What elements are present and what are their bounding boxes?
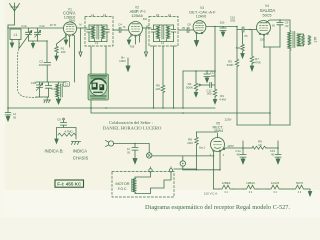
svg-text:12AV6: 12AV6 <box>196 15 207 19</box>
capacitor C11 <box>204 71 210 82</box>
svg-text:12AV6: 12AV6 <box>271 181 280 185</box>
IF1 internals <box>87 25 109 42</box>
tube V4 salida <box>257 21 271 36</box>
wire IF2 bottoms to buses <box>154 46 174 108</box>
B+ arrow near stamp <box>126 58 130 71</box>
variable capacitor C1C trimmer <box>35 28 41 41</box>
bus y125 <box>237 124 290 126</box>
svg-text:SALIDA: SALIDA <box>260 8 276 13</box>
svg-text:125V: 125V <box>224 118 231 122</box>
phono pickup <box>106 141 150 147</box>
svg-text:4,7MΩ: 4,7MΩ <box>64 130 72 134</box>
resistor under C10 <box>241 32 245 58</box>
capacitor IF2 left <box>151 25 155 42</box>
svg-text:470K: 470K <box>254 61 261 65</box>
coil L2 osc <box>56 82 62 99</box>
wire C8 to V3 grid <box>189 29 193 31</box>
svg-text:12K: 12K <box>155 87 160 91</box>
capacitor C10 coupling <box>242 27 244 32</box>
svg-text:L4: L4 <box>161 41 165 45</box>
svg-text:600: 600 <box>71 19 76 23</box>
wire cathode join x270 down <box>269 47 271 125</box>
legend network capacitor C6 <box>61 118 67 127</box>
motor coil <box>132 172 171 194</box>
wire IF1 to C4 <box>113 29 119 31</box>
resistor R3 <box>213 89 217 104</box>
ground arrow under V2 <box>127 36 131 45</box>
wire screen drop x146 <box>144 28 147 56</box>
legend chassis symbol <box>72 142 81 145</box>
svg-text:250: 250 <box>220 21 225 25</box>
svg-text:L1: L1 <box>14 33 18 37</box>
pilot lamp <box>180 156 220 170</box>
coil IF2 primary <box>157 25 160 42</box>
capacitor C15 electrolytic <box>275 141 281 164</box>
coil IF1 primary <box>92 25 95 42</box>
capacitor C16 phono <box>132 144 138 164</box>
wire V1 pin down to osc feedback <box>70 36 75 82</box>
IF transformer 2 dashed box <box>149 17 178 47</box>
bus y108 <box>8 107 215 109</box>
svg-text:F.O.C.: F.O.C. <box>118 187 128 191</box>
svg-text:40: 40 <box>271 153 275 157</box>
filter: resistor R9 <box>243 146 278 149</box>
wire V5 plate feed <box>197 131 218 133</box>
svg-text:05: 05 <box>13 116 17 120</box>
wire C10 to V4 grid <box>244 29 257 31</box>
svg-text:R18: R18 <box>130 46 135 49</box>
svg-text:3 4: 3 4 <box>273 191 277 194</box>
note colaboracion <box>103 120 162 131</box>
capacitor C7 to ground <box>220 27 226 37</box>
svg-text:.02: .02 <box>285 24 289 28</box>
svg-text:L3: L3 <box>95 41 99 45</box>
wire AC line from box to filaments <box>174 168 197 170</box>
svg-text:600: 600 <box>143 18 148 21</box>
capacitor C8 coupling <box>187 28 189 33</box>
capacitor C12 wiper series <box>210 83 215 88</box>
potentiometer R4 <box>194 71 210 97</box>
core IF1 <box>97 26 99 40</box>
wire V5 cathode to filter <box>224 148 243 150</box>
tube V3 det-cav-af <box>193 21 206 34</box>
svg-text:F-I: 455 KC: F-I: 455 KC <box>57 181 82 186</box>
wire osc tank top <box>36 81 66 83</box>
chassis ground osc tank <box>44 97 51 103</box>
svg-text:50C5: 50C5 <box>262 14 271 18</box>
svg-text:.005: .005 <box>210 74 216 78</box>
wire antenna lead down <box>8 11 15 25</box>
wire IF2 out to C8 <box>178 29 187 31</box>
capacitor IF1 right <box>105 25 109 42</box>
svg-text:L5: L5 <box>156 13 160 17</box>
wire detector chain x215 <box>214 27 216 90</box>
wire left vertical rail <box>7 25 9 113</box>
svg-text:C1B: C1B <box>31 81 37 85</box>
capacitor IF2 right <box>171 25 175 42</box>
capacitor C14 electrolytic <box>240 141 246 164</box>
svg-text:12BA6: 12BA6 <box>246 181 255 185</box>
svg-text:100: 100 <box>38 63 43 67</box>
speaker voice coil <box>297 34 310 46</box>
resistor R1 cathode <box>55 36 66 60</box>
svg-text:CHASIS: CHASIS <box>73 156 89 161</box>
svg-text:C6: C6 <box>57 118 61 122</box>
svg-text:40: 40 <box>236 153 240 157</box>
svg-text:50K: 50K <box>236 46 241 50</box>
svg-text:C1A: C1A <box>21 24 27 28</box>
plug contacts motor <box>149 167 173 172</box>
svg-text:3 4: 3 4 <box>249 191 253 194</box>
variable capacitor C1B osc <box>36 82 43 97</box>
motor dashed box <box>112 172 174 198</box>
capacitor C3 osc fixed <box>46 82 52 97</box>
wire T1 primary bottom to B+ rail <box>289 50 291 125</box>
svg-text:22Ω: 22Ω <box>187 141 193 145</box>
svg-text:INDICA: INDICA <box>73 149 87 154</box>
svg-text:L6: L6 <box>168 13 172 17</box>
svg-text:DANIEL HORACIO LUCERO: DANIEL HORACIO LUCERO <box>103 126 162 131</box>
resistor R2 on x163 <box>161 46 165 108</box>
ground arrow below L2 <box>56 99 60 104</box>
wire x183 drop <box>182 71 184 108</box>
coil IF1 secondary <box>102 25 105 42</box>
svg-text:Sw.1: Sw.1 <box>199 146 206 150</box>
switch phono-radio <box>147 144 214 159</box>
boxed label F-I 455KC <box>55 180 84 187</box>
svg-text:1K: 1K <box>258 143 262 147</box>
antenna <box>8 3 20 25</box>
bus y113 <box>91 108 270 113</box>
svg-text:C3: C3 <box>51 87 55 91</box>
svg-text:4.4M: 4.4M <box>219 98 226 102</box>
wire C4 to V2 grid <box>121 29 129 31</box>
tube V5 rect 35W4 <box>211 134 225 152</box>
wire V1 plate to IF1 <box>77 27 87 29</box>
svg-text:100: 100 <box>61 50 66 54</box>
stamp overprint <box>88 74 109 100</box>
svg-text:100V: 100V <box>119 59 126 63</box>
svg-text:MOTOR: MOTOR <box>115 182 129 186</box>
wire V1 pin to B+ arrow <box>65 36 67 40</box>
svg-text:.005: .005 <box>206 92 212 96</box>
legend resistor 4.7M loop <box>57 128 77 140</box>
svg-text:125V: 125V <box>227 144 234 148</box>
coil L1 box <box>10 29 21 48</box>
dashed gang link <box>18 43 37 98</box>
svg-text:M2: M2 <box>146 26 150 29</box>
svg-text:500K: 500K <box>186 86 193 90</box>
resistor R6 grid <box>250 30 254 71</box>
variable capacitor C1A <box>26 28 32 41</box>
label L2 <box>63 82 69 87</box>
svg-text:12BA6: 12BA6 <box>131 14 142 18</box>
svg-text:3 4: 3 4 <box>298 191 302 194</box>
wire coupling to V4 <box>237 29 242 31</box>
svg-text:Diagrama esquemático del recep: Diagrama esquemático del receptor Regal … <box>145 204 290 211</box>
IF2 internals <box>151 25 175 42</box>
ground arrow under V1 <box>64 40 67 44</box>
wire AVC x237 with R5 <box>235 27 239 126</box>
output transformer T1 <box>288 31 300 50</box>
svg-text:3 4: 3 4 <box>224 191 228 194</box>
wire V2 cathode stub <box>136 36 140 44</box>
filament string <box>214 185 312 196</box>
tube V1 converter <box>63 19 76 36</box>
svg-text:ALT.: ALT. <box>313 37 317 44</box>
capacitor C13 bottom of left rail <box>5 113 11 122</box>
svg-text:150: 150 <box>260 38 265 42</box>
svg-text:7K: 7K <box>122 26 125 29</box>
wire screen drop x80.5 <box>79 28 82 56</box>
svg-text:110 V.C.A.: 110 V.C.A. <box>204 192 218 196</box>
capacitor IF1 left <box>87 25 91 42</box>
IF transformer 1 dashed box <box>85 17 113 47</box>
core IF2 <box>162 26 164 40</box>
svg-text:12BE6: 12BE6 <box>222 181 231 185</box>
wire V3 out <box>206 26 237 28</box>
wire osc tank bottom <box>36 96 49 98</box>
svg-text:.005: .005 <box>230 19 236 23</box>
wire V5 heater pins <box>214 152 221 189</box>
svg-text:C8: C8 <box>187 23 191 27</box>
svg-text:M: M <box>79 23 81 27</box>
svg-text:L3: L3 <box>103 13 107 17</box>
tube V2 amp F-I <box>129 22 143 37</box>
svg-text:L4: L4 <box>91 13 95 17</box>
svg-text:INDICA B:: INDICA B: <box>44 149 63 154</box>
coil IF2 secondary <box>167 25 170 42</box>
capacitor C9 <box>277 20 283 47</box>
svg-text:35W4: 35W4 <box>214 129 223 133</box>
wire V2 plate to IF2 <box>143 27 152 29</box>
wire V4 cathode bottom loop <box>264 36 280 47</box>
svg-text:50C5: 50C5 <box>296 181 303 185</box>
legend B- arrow <box>55 139 58 143</box>
svg-text:46 70: 46 70 <box>50 23 57 27</box>
svg-text:L2: L2 <box>65 82 69 86</box>
wire volume line y71 <box>183 70 215 72</box>
capacitor C2 <box>44 63 51 83</box>
wire IF1 bottoms down through stamp <box>91 46 106 108</box>
wire trimmer bottoms to osc branch <box>29 41 48 62</box>
svg-text:Colaboración del Señor :: Colaboración del Señor : <box>109 120 153 125</box>
wire diagonal L1 to tuning cap <box>19 31 32 49</box>
svg-text:330K: 330K <box>226 63 233 67</box>
capacitor C4 coupling <box>119 28 121 33</box>
wire V4 plate top to T1 <box>267 20 290 31</box>
ground arrow V3 cathode <box>194 34 198 46</box>
svg-text:C1C: C1C <box>39 24 45 28</box>
wire top bus y28 <box>8 27 64 29</box>
resistor R8 <box>195 132 199 170</box>
